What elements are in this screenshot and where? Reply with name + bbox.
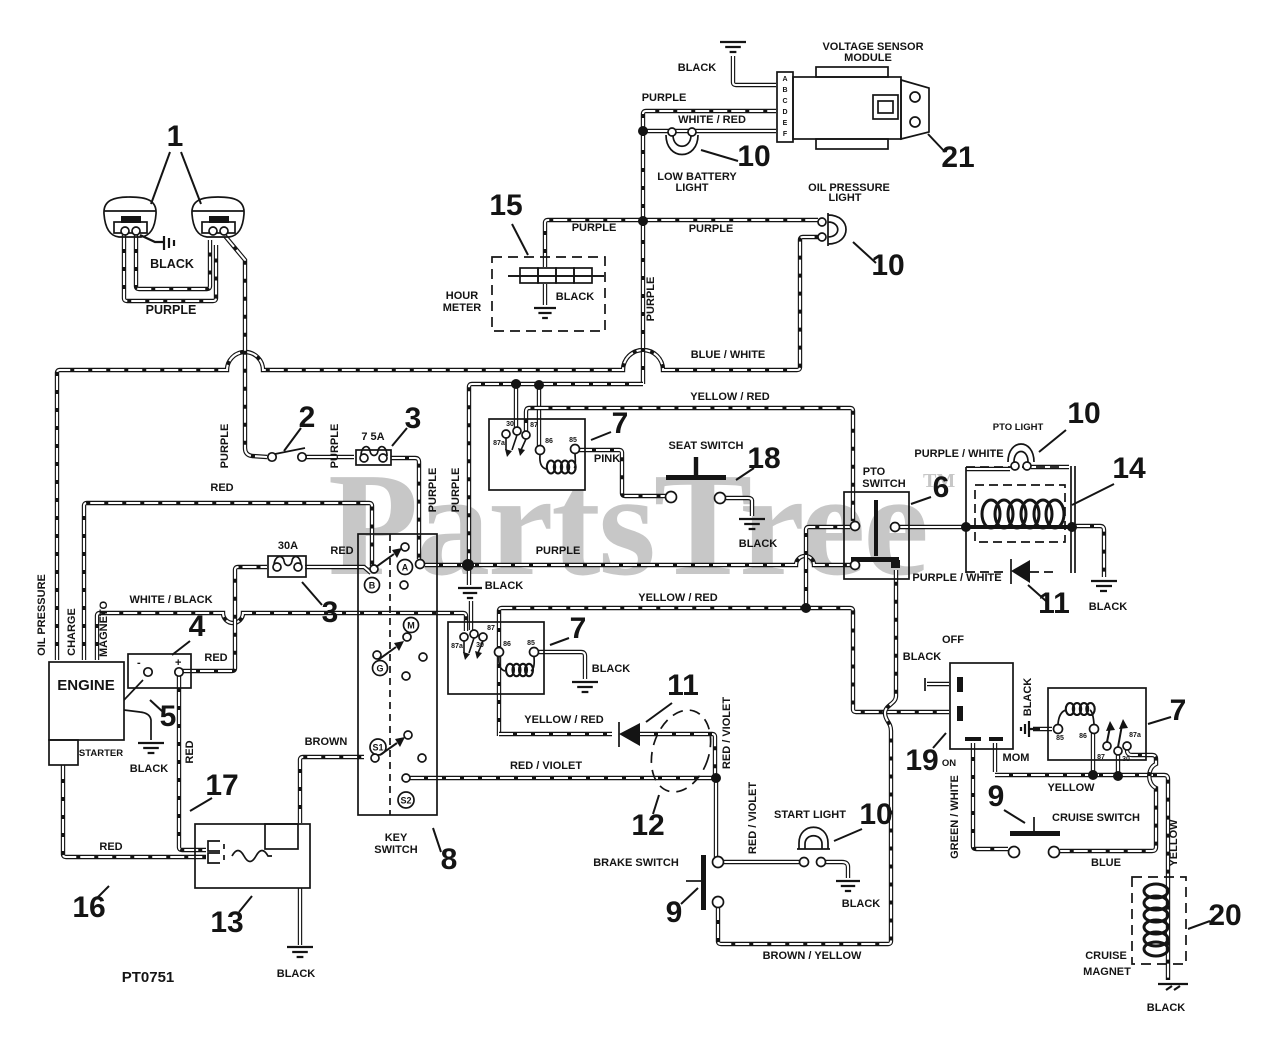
junction purple top: [638, 216, 648, 226]
ground headlights: [140, 235, 174, 250]
svg-text:85: 85: [527, 640, 535, 647]
wire yellow/red run y=608 to ON switch: [499, 608, 949, 736]
wire brake sw to start light: [721, 860, 799, 864]
svg-text:RED: RED: [210, 482, 233, 494]
clutch PTO coil: [966, 466, 1075, 573]
svg-text:10: 10: [1067, 397, 1100, 430]
wire purple headlight outer loop: [124, 235, 216, 301]
svg-text:3: 3: [405, 402, 422, 435]
svg-text:G: G: [376, 664, 383, 674]
svg-text:MAGNETO: MAGNETO: [98, 601, 110, 657]
svg-text:10: 10: [737, 140, 770, 173]
wire red connector to 30A fuse: [182, 567, 267, 671]
PTO switch SW4: [844, 492, 909, 579]
svg-text:OIL PRESSURE: OIL PRESSURE: [36, 574, 48, 656]
svg-text:MODULE: MODULE: [844, 52, 892, 64]
wire key B riser: [372, 566, 376, 573]
wire PTO sw to clutch: [899, 525, 962, 529]
svg-text:PURPLE: PURPLE: [427, 468, 439, 513]
wire brown solenoid to S1: [300, 757, 364, 823]
svg-text:PURPLE: PURPLE: [642, 92, 687, 104]
svg-text:10: 10: [871, 249, 904, 282]
junction white/red: [638, 126, 648, 136]
svg-text:15: 15: [489, 189, 522, 222]
svg-text:ON: ON: [942, 758, 956, 769]
wire PTO light right dash: [1031, 465, 1069, 469]
svg-text:BLACK: BLACK: [1022, 678, 1034, 717]
svg-text:SWITCH: SWITCH: [862, 478, 905, 490]
svg-text:YELLOW / RED: YELLOW / RED: [690, 391, 770, 403]
wire switch to 7.5A fuse: [306, 455, 354, 459]
wire brown/yellow brake loop: [718, 570, 896, 944]
svg-text:PURPLE: PURPLE: [219, 424, 231, 469]
svg-text:87a: 87a: [1129, 732, 1141, 739]
svg-text:PT0751: PT0751: [122, 969, 175, 986]
wire PTO light left feed: [966, 467, 1010, 471]
svg-text:BLACK: BLACK: [592, 663, 631, 675]
svg-text:OFF: OFF: [942, 634, 964, 646]
svg-text:BLACK: BLACK: [678, 62, 717, 74]
svg-text:14: 14: [1112, 452, 1146, 485]
svg-text:8: 8: [441, 843, 458, 876]
ground seat switch: [739, 519, 765, 529]
wire red connector down x=179: [179, 674, 206, 850]
svg-text:BRAKE SWITCH: BRAKE SWITCH: [593, 857, 679, 869]
wire start light to ground: [824, 862, 848, 878]
key contact arrow G: [373, 633, 427, 680]
svg-text:1: 1: [167, 120, 184, 153]
wire black ground to module: [733, 56, 776, 85]
diode D2: [619, 722, 640, 747]
svg-text:BLACK: BLACK: [556, 291, 595, 303]
svg-text:SEAT SWITCH: SEAT SWITCH: [669, 440, 744, 452]
svg-text:PTO: PTO: [863, 466, 886, 478]
svg-text:7: 7: [1170, 694, 1187, 727]
svg-text:7: 7: [612, 407, 629, 440]
svg-text:BLACK: BLACK: [842, 898, 881, 910]
svg-text:S1: S1: [372, 743, 383, 753]
svg-text:87a: 87a: [451, 643, 463, 650]
ground cruise magnet: [1158, 984, 1188, 990]
svg-text:S2: S2: [400, 796, 411, 806]
svg-text:11: 11: [1038, 587, 1070, 620]
switch S2 headlight: [268, 448, 306, 461]
wire white/black run y=613: [97, 613, 466, 660]
wire white/red to module: [643, 129, 776, 133]
svg-text:BLUE: BLUE: [1091, 857, 1121, 869]
wire MOM right stub to yellow run: [993, 743, 997, 772]
wire hour meter ground stem: [543, 284, 547, 305]
svg-text:9: 9: [988, 780, 1005, 813]
ground solenoid: [287, 947, 313, 957]
svg-text:86: 86: [545, 438, 553, 445]
svg-text:9: 9: [666, 896, 683, 929]
svg-text:WHITE / BLACK: WHITE / BLACK: [129, 594, 212, 606]
svg-text:PINK: PINK: [594, 453, 620, 465]
wire red starter: [63, 765, 206, 857]
svg-text:RED / VIOLET: RED / VIOLET: [721, 697, 733, 769]
svg-text:PURPLE: PURPLE: [329, 424, 341, 469]
wire ground to relay U2 30: [469, 601, 473, 630]
svg-text:86: 86: [1079, 733, 1087, 740]
relay U4 box: [1048, 688, 1146, 760]
svg-text:PURPLE / WHITE: PURPLE / WHITE: [912, 572, 1001, 584]
ground clutch: [1091, 581, 1117, 591]
svg-text:11: 11: [667, 669, 699, 702]
wire charge red run y=503: [84, 503, 372, 660]
ground hour meter: [534, 308, 556, 318]
cruise magnet L3: [1132, 877, 1186, 964]
headlamp L2: [192, 197, 244, 237]
wire relay U4 87 drop: [1091, 733, 1095, 772]
svg-text:4: 4: [189, 610, 206, 643]
svg-text:GREEN / WHITE: GREEN / WHITE: [949, 775, 961, 859]
svg-text:SWITCH: SWITCH: [374, 844, 417, 856]
svg-text:PURPLE: PURPLE: [146, 303, 197, 317]
svg-text:30: 30: [1122, 756, 1130, 763]
wire purple bus dot stub: [467, 567, 471, 585]
relay U1 box: [489, 419, 585, 490]
junction red/violet: [711, 773, 721, 783]
ground relay U2 85: [572, 682, 598, 692]
PTO light DS4: [1008, 444, 1034, 470]
svg-text:BROWN / YELLOW: BROWN / YELLOW: [763, 950, 862, 962]
start light DS3: [797, 827, 830, 866]
key terminal S2: [398, 774, 414, 808]
svg-text:START LIGHT: START LIGHT: [774, 809, 846, 821]
wire relay U4 30 drop: [1116, 755, 1120, 773]
svg-text:BLACK: BLACK: [1089, 601, 1128, 613]
junction yellow/red riser: [801, 603, 811, 613]
svg-text:20: 20: [1208, 899, 1241, 932]
svg-text:30A: 30A: [278, 540, 298, 552]
cruise switch SW7: [1009, 817, 1061, 858]
wire clutch to ground right: [1076, 526, 1104, 577]
diode D1: [1011, 559, 1030, 584]
wire yellow/red riser x=806: [806, 527, 850, 605]
svg-text:17: 17: [205, 769, 238, 802]
svg-text:YELLOW: YELLOW: [1047, 782, 1095, 794]
wire purple headlight inner loop: [136, 235, 210, 289]
svg-text:RED / VIOLET: RED / VIOLET: [747, 782, 759, 854]
svg-text:LIGHT: LIGHT: [676, 182, 709, 194]
oil pressure light DS2: [818, 213, 846, 246]
svg-text:M: M: [407, 621, 415, 631]
svg-text:LIGHT: LIGHT: [829, 192, 862, 204]
svg-text:MOM: MOM: [1003, 752, 1030, 764]
svg-text:RED: RED: [99, 841, 122, 853]
svg-text:YELLOW / RED: YELLOW / RED: [524, 714, 604, 726]
junction relay feed 2: [534, 380, 544, 390]
wire relay U1 86 feed: [537, 386, 541, 447]
relay U1 internals: [493, 421, 579, 474]
svg-text:CHARGE: CHARGE: [66, 608, 78, 656]
ground module top: [720, 42, 746, 52]
svg-text:5: 5: [160, 700, 177, 733]
svg-text:7 5A: 7 5A: [361, 431, 384, 443]
wire purple vertical x=643 to voltage module: [643, 111, 776, 384]
headlamp L1: [104, 197, 156, 237]
wire yellow/red diode run y=734: [499, 732, 612, 736]
svg-text:PTO LIGHT: PTO LIGHT: [993, 422, 1044, 433]
svg-text:BLACK: BLACK: [739, 538, 778, 550]
switch SW6 box: [925, 663, 1013, 749]
ground start light: [836, 881, 860, 891]
svg-text:RED / VIOLET: RED / VIOLET: [510, 760, 582, 772]
connector J1: [128, 654, 191, 688]
svg-text:16: 16: [72, 891, 105, 924]
wire purple/blue-white main bus y=370: [57, 237, 818, 660]
svg-text:BLACK: BLACK: [130, 763, 169, 775]
low battery light DS1: [666, 128, 698, 155]
svg-text:21: 21: [941, 141, 974, 174]
svg-text:HOUR: HOUR: [446, 290, 478, 302]
wire solenoid ground stem: [298, 888, 302, 945]
svg-text:12: 12: [631, 809, 664, 842]
svg-text:6: 6: [933, 471, 950, 504]
relay U4 internals: [1054, 703, 1141, 763]
svg-text:-: -: [137, 657, 141, 669]
svg-text:3: 3: [322, 596, 339, 629]
svg-text:PURPLE: PURPLE: [536, 545, 581, 557]
svg-text:STARTER: STARTER: [79, 748, 123, 759]
key terminal A: [398, 560, 425, 575]
svg-text:WHITE / RED: WHITE / RED: [678, 114, 746, 126]
ground relay U4 85: [1021, 721, 1040, 737]
svg-text:KEY: KEY: [385, 832, 408, 844]
svg-text:PURPLE: PURPLE: [645, 277, 657, 322]
svg-text:BLACK: BLACK: [485, 580, 524, 592]
engine block: [49, 662, 124, 765]
svg-text:86: 86: [503, 641, 511, 648]
svg-text:YELLOW / RED: YELLOW / RED: [638, 592, 718, 604]
svg-text:BROWN: BROWN: [305, 736, 348, 748]
wire MOM green/white to cruise switch: [973, 743, 1008, 849]
svg-text:19: 19: [905, 744, 938, 777]
wire yellow run y=775 to cruise magnet: [995, 775, 1168, 980]
wire purple lamp2 to switch S2: [225, 236, 267, 457]
junction cruise 30: [1113, 771, 1123, 781]
wire yellow/red run y=408: [526, 408, 853, 521]
wire yellow/red after diode D2: [640, 734, 715, 774]
hour meter M2: [492, 257, 605, 331]
svg-text:C: C: [782, 98, 787, 105]
svg-text:MAGNET: MAGNET: [1083, 966, 1131, 978]
wire seat switch to ground: [726, 498, 752, 516]
key terminal G: [373, 661, 388, 676]
svg-text:87a: 87a: [493, 440, 505, 447]
key contact arrow B: [376, 543, 409, 589]
wire red/violet to brake switch: [714, 780, 718, 857]
svg-text:PURPLE: PURPLE: [572, 222, 617, 234]
wire OFF stub: [927, 682, 949, 686]
svg-text:D: D: [782, 109, 787, 116]
svg-text:RED: RED: [330, 545, 353, 557]
module M1 body: [793, 67, 929, 149]
junction relay feed 1: [511, 379, 521, 389]
fuse F1 7.5A: [356, 447, 391, 465]
svg-text:BLUE / WHITE: BLUE / WHITE: [691, 349, 766, 361]
key terminal M: [404, 618, 419, 633]
wire 7.5A fuse to key A: [391, 458, 419, 559]
svg-text:87: 87: [487, 625, 495, 632]
key switch SW1 box: [358, 534, 437, 815]
key terminal B: [365, 565, 380, 593]
svg-text:87: 87: [1097, 754, 1105, 761]
junction purple bus: [462, 559, 474, 571]
key contact arrow S1: [380, 731, 426, 762]
connector oval 12: [641, 702, 720, 799]
svg-text:E: E: [783, 120, 788, 127]
svg-text:85: 85: [569, 437, 577, 444]
wire purple hour meter riser and run y=220: [545, 220, 818, 267]
wire red/violet run y=778: [410, 776, 714, 780]
solenoid K1 box: [195, 824, 310, 888]
relay U2 internals: [451, 625, 538, 676]
key terminal S1: [370, 739, 386, 762]
svg-text:B: B: [369, 581, 376, 591]
wire purple bus y=565: [425, 556, 851, 565]
svg-text:85: 85: [1056, 735, 1064, 742]
svg-text:7: 7: [570, 612, 587, 645]
seat switch SW3: [666, 457, 727, 504]
svg-text:METER: METER: [443, 302, 482, 314]
junction clutch right: [1067, 522, 1077, 532]
relay U2 box: [448, 622, 544, 694]
svg-text:YELLOW: YELLOW: [1168, 819, 1180, 867]
wire relay U1 30 feed: [514, 385, 518, 428]
fuse F2 30A: [268, 556, 306, 577]
wire pink relay U1 to seat switch: [578, 450, 666, 496]
svg-text:30: 30: [506, 421, 514, 428]
ground engine G1: [138, 743, 164, 753]
svg-text:RED: RED: [204, 652, 227, 664]
svg-text:A: A: [782, 76, 787, 83]
junction clutch left: [961, 522, 971, 532]
ground relay U2 30 top: [458, 588, 482, 598]
svg-text:A: A: [402, 563, 409, 573]
svg-text:RED: RED: [184, 740, 196, 763]
svg-text:CRUISE SWITCH: CRUISE SWITCH: [1052, 812, 1140, 824]
wire relay U2 85 to ground: [538, 652, 585, 679]
wire relay U4 87a to blue run: [1060, 750, 1156, 851]
svg-text:BLACK: BLACK: [1147, 1002, 1186, 1014]
wire 30A fuse to key B: [305, 567, 371, 573]
svg-text:BLACK: BLACK: [150, 257, 194, 271]
svg-text:BLACK: BLACK: [277, 968, 316, 980]
wire purple run y=384 relay feed: [469, 384, 643, 561]
svg-text:87: 87: [530, 422, 538, 429]
junction cruise 87: [1088, 770, 1098, 780]
brake switch SW5: [686, 855, 724, 910]
svg-text:ENGINE: ENGINE: [57, 677, 115, 694]
wire relay U4 85 ground stub: [1033, 727, 1052, 731]
module M1 connector: [777, 72, 793, 142]
wire engine to connector: [124, 680, 151, 740]
svg-text:PURPLE: PURPLE: [689, 223, 734, 235]
svg-text:10: 10: [859, 798, 892, 831]
svg-text:PURPLE / WHITE: PURPLE / WHITE: [914, 448, 1003, 460]
svg-text:PURPLE: PURPLE: [450, 468, 462, 513]
svg-text:B: B: [782, 87, 787, 94]
svg-text:BLACK: BLACK: [903, 651, 942, 663]
svg-text:F: F: [783, 131, 788, 138]
svg-text:CRUISE: CRUISE: [1085, 950, 1127, 962]
